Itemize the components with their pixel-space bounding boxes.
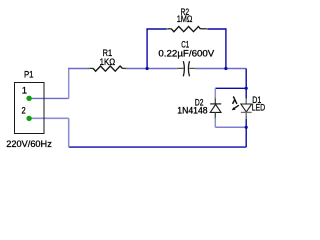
wire pin2 horizontal — [32, 117, 69, 119]
LED D1 lambda symbol — [233, 97, 237, 104]
connector P1 body — [15, 83, 45, 134]
wire bottom horizontal — [69, 146, 247, 148]
LED D1 cathode bar — [241, 111, 252, 113]
pin 2 green dot — [26, 116, 31, 121]
node C1 right pin tick — [195, 68, 197, 69]
LED D1 top lead — [245, 99, 247, 104]
svg-text:P1: P1 — [24, 70, 34, 81]
wire main horizontal junction to right corner — [226, 68, 246, 70]
capacitor C1 left plate — [183, 61, 184, 76]
wire R2 top right — [207, 28, 226, 30]
node D2 top pin tick — [215, 98, 216, 100]
svg-text:2: 2 — [22, 106, 26, 117]
node D2 bottom pin tick — [215, 117, 216, 119]
node R2 left pin tick — [166, 28, 168, 29]
resistor R2 right lead — [201, 28, 207, 30]
LED D1 lambda arrow — [234, 105, 239, 108]
svg-text:1MΩ: 1MΩ — [177, 14, 193, 25]
resistor R1 right lead — [123, 67, 127, 69]
node junction R2 left on main wire — [146, 67, 149, 70]
wire right vertical rail to bottom — [245, 127, 247, 147]
svg-text:1KΩ: 1KΩ — [100, 57, 116, 68]
diode D2 top lead — [214, 98, 216, 104]
wire right corner vertical down to top rail — [245, 69, 247, 89]
wire R2 right vertical — [225, 29, 227, 69]
diode D2 cathode bar — [210, 103, 221, 105]
node junction bottom rail at D1 — [245, 126, 248, 129]
wire R2 left vertical — [146, 29, 148, 69]
LED D1 triangle — [241, 104, 252, 112]
svg-text:0.22µF/600V: 0.22µF/600V — [158, 49, 215, 60]
wire D1 top vertical — [245, 88, 247, 99]
wire main horizontal junction to C1 — [147, 68, 176, 70]
wire D1 bottom vertical — [245, 117, 247, 128]
capacitor C1 right plate — [188, 61, 189, 76]
node C1 left pin tick — [176, 68, 178, 69]
wire D2 top vertical — [214, 88, 216, 98]
wire pin1 horizontal — [32, 97, 69, 99]
resistor R1 zigzag — [93, 66, 122, 71]
node junction R2 right on main wire — [224, 67, 227, 70]
wire diode bottom rail — [215, 126, 246, 128]
diode D2 triangle — [210, 104, 221, 112]
svg-text:1: 1 — [22, 86, 27, 97]
wire main horizontal C1 to junction — [196, 68, 226, 70]
node D1 top pin tick — [246, 98, 247, 100]
resistor R1 left lead — [89, 67, 93, 69]
resistor R2 zigzag — [172, 27, 201, 32]
node junction top rail at D1 — [245, 87, 248, 90]
diode D2 bottom lead — [214, 112, 216, 117]
wire main horizontal left of R1 — [68, 68, 89, 70]
resistor R2 left lead — [168, 28, 172, 30]
LED D1 bottom lead — [245, 112, 247, 117]
wire main horizontal R1 to junction — [127, 68, 147, 70]
wire pin1 vertical riser — [68, 69, 70, 99]
capacitor C1 right lead — [189, 67, 195, 69]
pin 1 green dot — [26, 96, 31, 101]
node D1 bottom pin tick — [246, 118, 247, 120]
wire D2 bottom vertical — [214, 117, 216, 127]
svg-text:220V/60Hz: 220V/60Hz — [6, 139, 52, 150]
capacitor C1 left lead — [177, 67, 183, 69]
svg-text:1N4148: 1N4148 — [177, 105, 207, 116]
wire pin2 vertical drop — [68, 118, 70, 147]
node R1 left pin tick — [88, 68, 90, 69]
wire R2 top left — [146, 28, 167, 30]
wire diode top rail — [215, 87, 246, 89]
node R2 right pin tick — [206, 28, 208, 29]
svg-text:LED: LED — [252, 103, 266, 114]
node R1 right pin tick — [126, 68, 128, 69]
